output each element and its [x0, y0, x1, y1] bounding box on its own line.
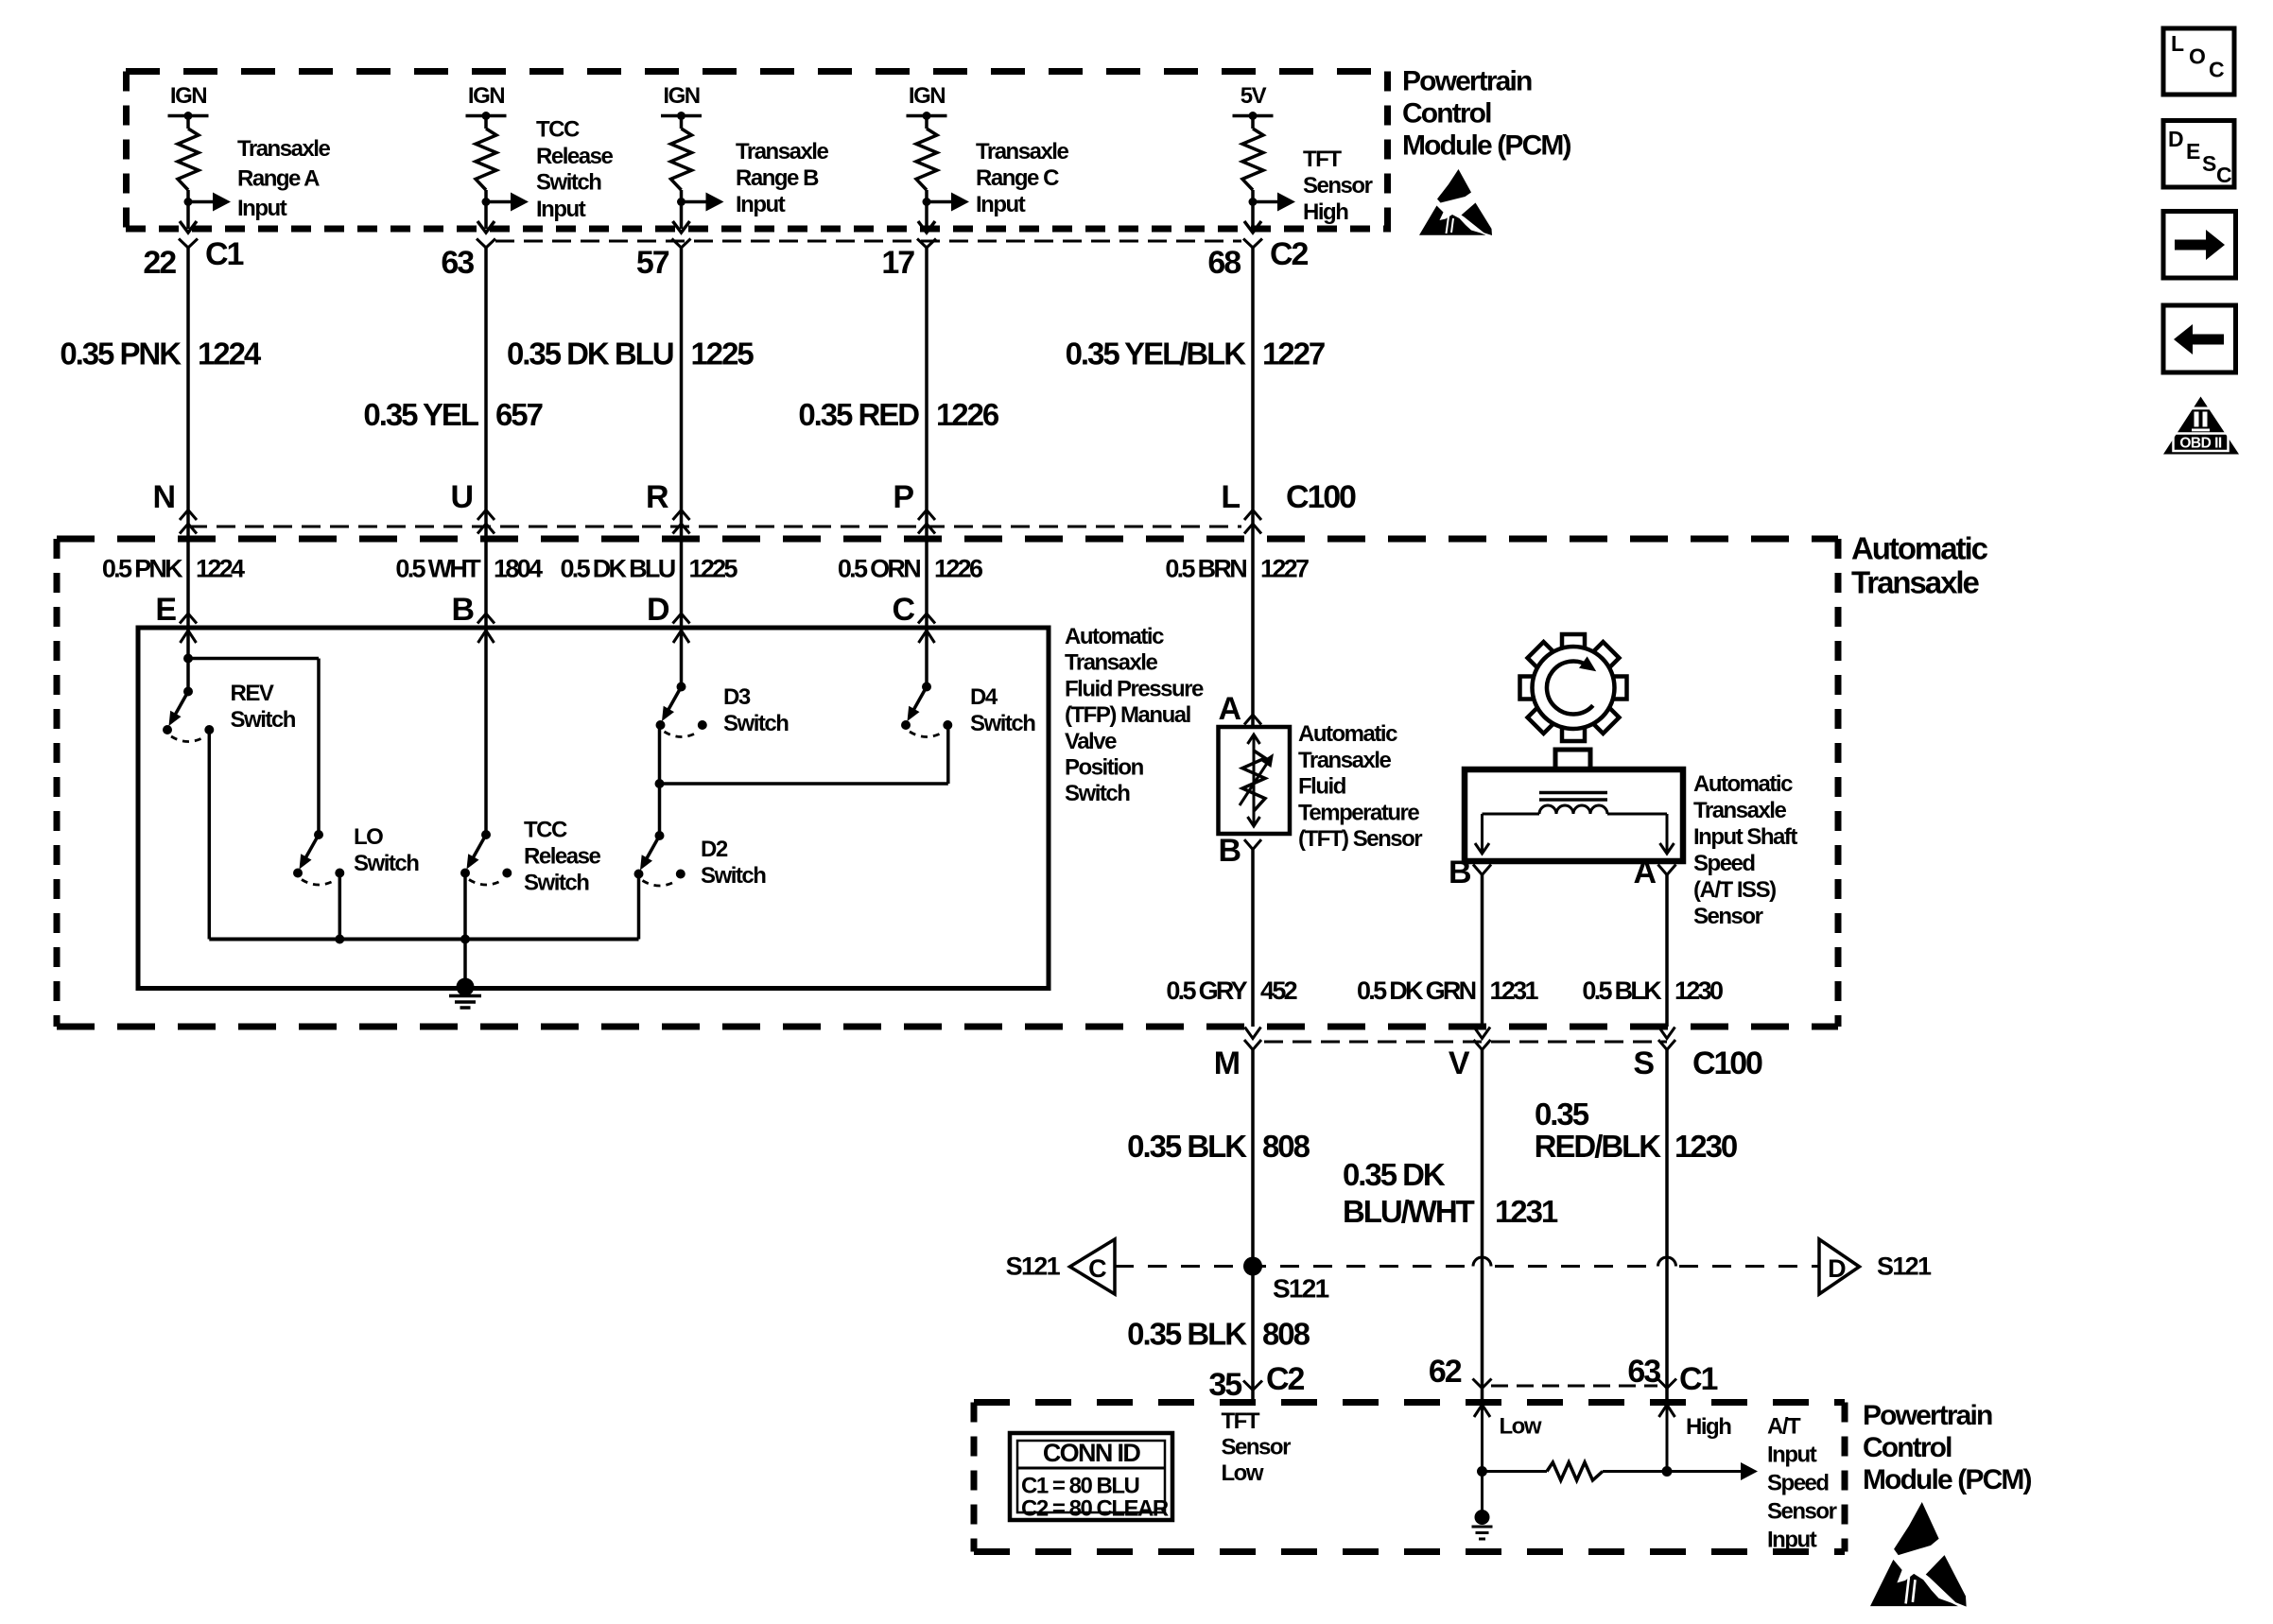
wire segment into TFP switch (pin D): [673, 539, 689, 662]
svg-text:Transaxle: Transaxle: [1065, 650, 1157, 676]
wire vertical segment to PCM (bottom) 1: [1251, 1050, 1255, 1403]
connector C100 thin dashed line (top): [188, 526, 1241, 528]
svg-text:Sensor: Sensor: [1222, 1435, 1292, 1460]
PCM exit arrow (wire 1): [180, 221, 197, 233]
svg-text:0.5 BRN: 0.5 BRN: [1165, 555, 1246, 583]
connector C1 thin dashed line (bottom): [1491, 1385, 1657, 1388]
svg-text:L: L: [2171, 31, 2184, 56]
svg-text:Valve: Valve: [1065, 729, 1117, 754]
icon: DESC box: [2163, 121, 2234, 188]
svg-text:0.35 YEL: 0.35 YEL: [363, 397, 478, 432]
node IGN tick bar and junction dot (wire 2): [466, 112, 507, 120]
svg-text:C2: C2: [1270, 236, 1308, 272]
svg-text:Transaxle: Transaxle: [237, 136, 330, 162]
svg-text:657: 657: [495, 397, 543, 432]
svg-text:Automatic: Automatic: [1298, 721, 1397, 747]
svg-text:Input: Input: [536, 197, 586, 222]
wire label 0.35 PNK 1224: [60, 337, 262, 371]
resistor pull-up for TCC Release (wire 2): [476, 116, 496, 230]
PCM entry arrow High: [1659, 1405, 1675, 1472]
svg-text:0.35 BLK: 0.35 BLK: [1127, 1129, 1247, 1164]
svg-text:1225: 1225: [689, 555, 738, 583]
svg-text:0.35 RED: 0.35 RED: [798, 397, 919, 432]
svg-text:Sensor: Sensor: [1767, 1499, 1837, 1525]
svg-text:808: 808: [1262, 1129, 1310, 1164]
resistor pull-up for Transaxle Range B (wire 3): [671, 116, 692, 230]
svg-text:D3: D3: [723, 684, 751, 710]
svg-text:1227: 1227: [1262, 337, 1325, 371]
svg-text:Position: Position: [1065, 755, 1144, 781]
PCM entry arrow Low: [1474, 1405, 1490, 1472]
switch TCC Release: [460, 662, 512, 987]
svg-text:Input: Input: [1767, 1443, 1817, 1468]
signal tap dot and arrow (wire 3): [677, 193, 724, 212]
label: Transaxle Range C Input: [976, 139, 1068, 217]
connector pin 63 Y-symbol: [441, 239, 495, 282]
icon: forward arrow box: [2163, 212, 2236, 279]
svg-text:IGN: IGN: [909, 83, 945, 109]
TFP switch pin D chevron: [647, 592, 689, 628]
svg-text:0.35: 0.35: [1535, 1097, 1589, 1132]
svg-text:Input: Input: [1767, 1528, 1817, 1553]
svg-text:1226: 1226: [936, 397, 999, 432]
connector C100 pin R double chevron: [646, 479, 689, 534]
wire vertical segment to PCM (bottom) 3: [1665, 1050, 1669, 1403]
svg-text:U: U: [451, 479, 473, 515]
label: Low: [1500, 1414, 1542, 1440]
label: D3 Switch: [723, 684, 789, 736]
node IGN tick bar and junction dot (wire 4): [907, 112, 947, 120]
svg-text:S121: S121: [1273, 1274, 1329, 1304]
wire label 0.35 BLK 808 (lower): [1127, 1317, 1310, 1352]
svg-text:5V: 5V: [1241, 83, 1267, 109]
switch LO: [293, 830, 344, 940]
svg-text:D4: D4: [970, 684, 998, 710]
svg-text:Transaxle: Transaxle: [1693, 798, 1786, 823]
ESD sensitivity symbol (top): [1419, 169, 1492, 235]
wire vertical segment 1 (PCM to transaxle): [186, 248, 190, 539]
connector C100 pin N double chevron: [153, 479, 197, 534]
wire label 0.5 ORN 1226: [838, 555, 983, 583]
signal tap dot and arrow (wire 4): [923, 193, 970, 212]
svg-text:D: D: [1828, 1254, 1846, 1283]
label: REV Switch: [231, 681, 296, 733]
label: TFT Sensor High: [1303, 147, 1373, 225]
svg-text:LO: LO: [354, 824, 383, 850]
A/T ISS sensor body: [1465, 750, 1683, 861]
TFP Manual Valve Position Switch box: [138, 628, 1049, 989]
svg-text:Switch: Switch: [231, 707, 296, 733]
ISS pin B: [1449, 855, 1491, 890]
label: Automatic Transaxle: [1851, 531, 1988, 600]
svg-text:(A/T ISS): (A/T ISS): [1693, 877, 1776, 903]
svg-text:452: 452: [1260, 976, 1297, 1005]
connector pin 17 Y-symbol: [881, 239, 936, 282]
net IGN supply label (wire 1): [170, 83, 206, 109]
svg-text:Control: Control: [1402, 98, 1491, 130]
switch D3: [655, 662, 948, 836]
svg-text:1224: 1224: [196, 555, 245, 583]
ISS pin A: [1634, 855, 1676, 890]
net IGN supply label (wire 4): [909, 83, 945, 109]
svg-text:Range A: Range A: [237, 166, 320, 192]
label: D2 Switch: [701, 837, 766, 889]
TFP switch pin E chevron: [155, 592, 197, 628]
splice S121 junction dot: [1243, 1257, 1329, 1304]
svg-text:S121: S121: [1877, 1253, 1932, 1281]
svg-text:D: D: [2168, 127, 2183, 151]
svg-text:BLU/WHT: BLU/WHT: [1343, 1194, 1475, 1229]
label: Transaxle Range B Input: [736, 139, 828, 217]
svg-text:O: O: [2189, 44, 2205, 69]
svg-text:Fluid Pressure: Fluid Pressure: [1065, 676, 1204, 701]
connector pin 57 Y-symbol: [636, 239, 691, 282]
svg-text:(TFT) Sensor: (TFT) Sensor: [1298, 826, 1422, 852]
svg-text:0.35 DK: 0.35 DK: [1343, 1157, 1446, 1192]
svg-text:Module (PCM): Module (PCM): [1863, 1464, 2032, 1495]
svg-text:N: N: [153, 479, 175, 515]
wire label 0.5 BRN 1227: [1165, 555, 1309, 583]
PCM exit arrow (wire 5): [1244, 221, 1261, 233]
PCM (bottom) dashed enclosure box: [974, 1403, 1845, 1552]
svg-text:0.5 WHT: 0.5 WHT: [395, 555, 481, 583]
svg-text:L: L: [1221, 479, 1240, 515]
resistor pull-up for Transaxle Range A (wire 1): [178, 116, 199, 230]
signal tap dot and arrow (wire 1): [184, 193, 232, 212]
connector C2 thin dashed line: [495, 240, 1241, 243]
svg-text:0.5 DK BLU: 0.5 DK BLU: [560, 555, 674, 583]
svg-text:V: V: [1449, 1045, 1470, 1081]
svg-text:63: 63: [441, 245, 474, 281]
svg-text:Automatic: Automatic: [1065, 624, 1164, 649]
label: Transaxle Range A Input: [237, 136, 330, 221]
label: High: [1686, 1414, 1731, 1440]
label: A/T Input Speed Sensor Input: [1767, 1414, 1837, 1553]
svg-text:0.5 PNK: 0.5 PNK: [102, 555, 183, 583]
svg-text:B: B: [452, 592, 475, 628]
connector pin 68 (C2) Y-symbol: [1207, 236, 1308, 281]
svg-text:0.35 PNK: 0.35 PNK: [60, 337, 182, 371]
wire 0.5 BLK segment: [1665, 875, 1669, 1028]
svg-text:68: 68: [1207, 245, 1241, 281]
wire label 0.5 BLK 1230: [1582, 976, 1723, 1005]
svg-text:Input: Input: [736, 192, 786, 217]
signal tap dot and arrow (wire 5): [1249, 193, 1296, 212]
svg-text:0.5 DK GRN: 0.5 DK GRN: [1357, 976, 1476, 1005]
wire 0.5 DK GRN segment: [1481, 875, 1484, 1028]
Automatic Transaxle dashed enclosure box: [57, 539, 1838, 1027]
wire label 0.35 BLK 808 (upper): [1127, 1129, 1310, 1164]
PCM (top) dashed enclosure box: [126, 72, 1391, 230]
TFP switch pin C chevron: [893, 592, 935, 628]
wire label 0.5 PNK 1224: [102, 555, 245, 583]
svg-text:High: High: [1303, 199, 1348, 225]
svg-text:Module (PCM): Module (PCM): [1402, 130, 1571, 162]
svg-text:Input: Input: [237, 196, 287, 221]
svg-text:Sensor: Sensor: [1693, 904, 1763, 929]
label: Automatic Transaxle Fluid Pressure (TFP) Manual Valve Position Switch: [1065, 624, 1204, 806]
icon: LOC box: [2163, 28, 2234, 95]
svg-text:TFT: TFT: [1303, 147, 1342, 172]
splice S121 dashed link line: [1115, 1257, 1819, 1267]
svg-text:TCC: TCC: [524, 818, 567, 843]
svg-text:REV: REV: [231, 681, 274, 706]
PCM exit arrow (wire 4): [918, 221, 935, 233]
svg-text:1225: 1225: [691, 337, 755, 371]
svg-text:Speed: Speed: [1693, 851, 1755, 876]
svg-text:IGN: IGN: [468, 83, 504, 109]
gear icon (input shaft): [1520, 634, 1627, 741]
TFP switch pin B chevron: [452, 592, 495, 628]
wire label 0.35 DK BLU 1225: [507, 337, 754, 371]
net IGN supply label (wire 3): [663, 83, 699, 109]
svg-text:D: D: [647, 592, 669, 628]
connector pin 62 Y-symbol: [1429, 1354, 1492, 1390]
svg-text:IGN: IGN: [663, 83, 699, 109]
svg-text:Automatic: Automatic: [1693, 771, 1793, 797]
connector pin 22 (C1) Y-symbol: [143, 236, 243, 281]
TFT sensor (Automatic Transaxle Fluid Temperature): [1219, 727, 1291, 834]
wire label 0.5 DK GRN 1231: [1357, 976, 1538, 1005]
svg-text:1804: 1804: [494, 555, 543, 583]
connector pin 63 (C1) Y-symbol: [1627, 1354, 1717, 1397]
svg-text:C100: C100: [1286, 479, 1356, 515]
label: TCC Release Switch Input: [536, 117, 613, 223]
wire segment into TFP switch (pin C): [919, 539, 935, 662]
svg-text:0.35 DK BLU: 0.35 DK BLU: [507, 337, 673, 371]
svg-text:A: A: [1219, 691, 1241, 727]
svg-text:S: S: [1633, 1045, 1654, 1081]
connector C100 pin M chevron (bottom): [1214, 1040, 1261, 1081]
wire label 0.5 GRY 452: [1166, 976, 1296, 1005]
wire label 0.35 RED 1226: [798, 397, 999, 432]
svg-text:Powertrain: Powertrain: [1402, 66, 1532, 97]
icon: OBD II triangle: [2163, 397, 2239, 455]
svg-text:OBD II: OBD II: [2179, 436, 2222, 452]
label: Automatic Transaxle Input Shaft Speed (A/T ISS) Sensor: [1693, 771, 1797, 929]
resistor (A/T ISS PCM internal): [1477, 1462, 1758, 1480]
node IGN tick bar and junction dot (wire 1): [168, 112, 209, 120]
svg-text:Control: Control: [1863, 1432, 1952, 1463]
svg-text:RED/BLK: RED/BLK: [1535, 1129, 1662, 1164]
svg-text:1231: 1231: [1490, 976, 1539, 1005]
connector C100 thin dashed line (bottom): [1264, 1041, 1667, 1044]
svg-text:A/T: A/T: [1767, 1414, 1801, 1440]
svg-text:S121: S121: [1006, 1253, 1061, 1281]
svg-text:Release: Release: [524, 844, 600, 870]
svg-text:Switch: Switch: [1065, 781, 1130, 806]
transaxle exit arrow: [1659, 1028, 1675, 1039]
svg-text:Fluid: Fluid: [1298, 774, 1346, 800]
signal tap dot and arrow (wire 2): [482, 193, 529, 212]
svg-text:C100: C100: [1692, 1045, 1762, 1081]
switch D4: [901, 662, 952, 737]
CONN ID table: [1010, 1433, 1172, 1522]
svg-text:C: C: [2209, 58, 2224, 82]
svg-text:CONN ID: CONN ID: [1043, 1439, 1140, 1467]
svg-text:B: B: [1219, 833, 1241, 869]
svg-text:Range C: Range C: [976, 165, 1059, 191]
connector C100 pin V chevron (bottom): [1449, 1040, 1491, 1081]
svg-text:0.35 BLK: 0.35 BLK: [1127, 1317, 1247, 1352]
TFT sensor pin B: [1219, 833, 1261, 869]
svg-text:Low: Low: [1222, 1460, 1264, 1486]
svg-text:1224: 1224: [198, 337, 262, 371]
wire segment into TFP switch (pin E): [181, 539, 197, 662]
svg-text:P: P: [893, 479, 913, 515]
ground (PCM internal): [1472, 1472, 1493, 1540]
splice S121 off-page triangle D (right): [1819, 1239, 1932, 1294]
label: Automatic Transaxle Fluid Temperature (TFT) Sensor: [1298, 721, 1422, 852]
svg-text:S: S: [2202, 151, 2216, 176]
svg-text:C1: C1: [205, 236, 243, 272]
PCM exit arrow (wire 3): [673, 221, 690, 233]
wire vertical segment to PCM (bottom) 2: [1481, 1050, 1484, 1403]
svg-text:Switch: Switch: [524, 871, 589, 896]
switch D2: [634, 831, 685, 940]
wire 0.35 YEL/BLK / 0.5 BRN (to TFT sensor): [1251, 539, 1255, 727]
label: D4 Switch: [970, 684, 1035, 736]
node 5V tick bar and junction dot (wire 5): [1233, 112, 1274, 120]
label: Powertrain Control Module (PCM) top: [1402, 66, 1571, 162]
svg-text:C1 = 80 BLU: C1 = 80 BLU: [1021, 1474, 1138, 1499]
svg-text:B: B: [1449, 855, 1471, 890]
svg-text:Low: Low: [1500, 1414, 1542, 1440]
svg-text:E: E: [2186, 139, 2200, 164]
label C100 (bottom): [1692, 1045, 1762, 1081]
wire: REV switch branch to LO switch: [183, 654, 319, 836]
ESD sensitivity symbol (bottom): [1870, 1502, 1967, 1607]
connector C100 pin P double chevron: [893, 479, 935, 534]
label: TCC Release Switch (inner): [524, 818, 600, 896]
connector pin 35 (C2) Y-symbol: [1208, 1361, 1304, 1403]
label: TFT Sensor Low: [1222, 1408, 1292, 1486]
wire 0.5 GRY 452 segment: [1251, 850, 1255, 1027]
wire label 0.5 DK BLU 1225: [560, 555, 737, 583]
svg-text:62: 62: [1429, 1354, 1462, 1390]
label: LO Switch: [354, 824, 419, 876]
svg-text:0.35 YEL/BLK: 0.35 YEL/BLK: [1066, 337, 1247, 371]
wire segment into TFP switch (pin B): [478, 539, 495, 662]
svg-text:Switch: Switch: [701, 863, 766, 889]
svg-text:Sensor: Sensor: [1303, 173, 1373, 199]
wire vertical segment 2 (PCM to transaxle): [484, 248, 488, 539]
svg-text:M: M: [1214, 1045, 1240, 1081]
svg-text:Range B: Range B: [736, 165, 819, 191]
svg-text:D2: D2: [701, 837, 728, 862]
net IGN supply label (wire 2): [468, 83, 504, 109]
svg-text:High: High: [1686, 1414, 1731, 1440]
switch REV: [163, 662, 214, 940]
svg-text:TFT: TFT: [1222, 1408, 1260, 1434]
svg-text:35: 35: [1208, 1367, 1241, 1403]
label C100 (top): [1286, 479, 1356, 515]
PCM exit arrow (wire 2): [477, 221, 495, 233]
svg-text:C: C: [1088, 1254, 1106, 1283]
svg-text:57: 57: [636, 245, 669, 281]
transaxle exit arrow: [1474, 1028, 1490, 1039]
svg-text:22: 22: [143, 245, 176, 281]
label: Powertrain Control Module (PCM) bottom: [1863, 1400, 2032, 1495]
svg-text:A: A: [1634, 855, 1657, 890]
wire vertical segment 3 (PCM to transaxle): [680, 248, 684, 539]
wire label 0.35 YEL 657: [363, 397, 542, 432]
wire label 0.35 RED/BLK 1230: [1535, 1097, 1737, 1164]
transaxle exit arrow: [1245, 1028, 1261, 1039]
resistor pull-up for Transaxle Range C (wire 4): [916, 116, 937, 230]
svg-text:Transaxle: Transaxle: [976, 139, 1068, 164]
svg-text:Speed: Speed: [1767, 1471, 1829, 1496]
net 5V supply label (wire 5): [1241, 83, 1267, 109]
wire vertical segment 4 (PCM to transaxle): [925, 248, 928, 539]
svg-text:Powertrain: Powertrain: [1863, 1400, 1992, 1431]
svg-text:Automatic: Automatic: [1851, 531, 1988, 566]
svg-text:E: E: [155, 592, 176, 628]
icon: back arrow box: [2163, 305, 2236, 372]
svg-text:17: 17: [881, 245, 914, 281]
ground (TFP switch common): [449, 978, 481, 1009]
svg-text:C: C: [893, 592, 915, 628]
svg-text:Switch: Switch: [723, 711, 789, 736]
svg-text:1230: 1230: [1674, 976, 1723, 1005]
svg-text:Input: Input: [976, 192, 1026, 217]
svg-text:63: 63: [1627, 1354, 1660, 1390]
svg-text:0.5 BLK: 0.5 BLK: [1582, 976, 1662, 1005]
svg-text:808: 808: [1262, 1317, 1310, 1352]
node IGN tick bar and junction dot (wire 3): [661, 112, 702, 120]
splice S121 off-page triangle C (left): [1006, 1239, 1115, 1294]
svg-text:C1: C1: [1679, 1361, 1717, 1397]
connector C100 pin U double chevron: [451, 479, 495, 534]
wire label 0.35 DK BLU/WHT 1231: [1343, 1157, 1558, 1229]
svg-text:TCC: TCC: [536, 117, 580, 143]
svg-text:C: C: [2216, 163, 2231, 187]
resistor pull-up for TFT Sensor (wire 5): [1242, 116, 1263, 230]
wire vertical segment 5 (PCM to transaxle): [1251, 248, 1255, 539]
svg-text:Transaxle: Transaxle: [736, 139, 828, 164]
svg-text:Switch: Switch: [354, 851, 419, 876]
svg-text:1227: 1227: [1260, 555, 1309, 583]
connector C100 pin S chevron (bottom): [1633, 1040, 1675, 1081]
wire label 0.35 YEL/BLK 1227: [1066, 337, 1325, 371]
svg-text:1231: 1231: [1495, 1194, 1558, 1229]
svg-text:Release: Release: [536, 144, 613, 169]
svg-text:Switch: Switch: [970, 711, 1035, 736]
svg-text:Input Shaft: Input Shaft: [1693, 824, 1797, 850]
wire label 0.5 WHT 1804: [395, 555, 543, 583]
svg-text:0.5 ORN: 0.5 ORN: [838, 555, 920, 583]
svg-text:1226: 1226: [934, 555, 983, 583]
connector C100 pin L double chevron: [1221, 479, 1261, 534]
svg-text:1230: 1230: [1674, 1129, 1737, 1164]
svg-text:Transaxle: Transaxle: [1298, 748, 1391, 773]
svg-text:IGN: IGN: [170, 83, 206, 109]
svg-text:Transaxle: Transaxle: [1851, 565, 1980, 600]
svg-text:(TFP) Manual: (TFP) Manual: [1065, 702, 1190, 728]
svg-text:R: R: [646, 479, 668, 515]
svg-text:Switch: Switch: [536, 170, 601, 196]
wire: switch common rail: [209, 935, 638, 944]
svg-text:C2 = 80 CLEAR: C2 = 80 CLEAR: [1021, 1496, 1169, 1522]
TFT sensor pin A: [1219, 691, 1261, 727]
svg-text:Temperature: Temperature: [1298, 800, 1419, 825]
svg-text:C2: C2: [1266, 1361, 1304, 1397]
svg-text:0.5 GRY: 0.5 GRY: [1166, 976, 1247, 1005]
